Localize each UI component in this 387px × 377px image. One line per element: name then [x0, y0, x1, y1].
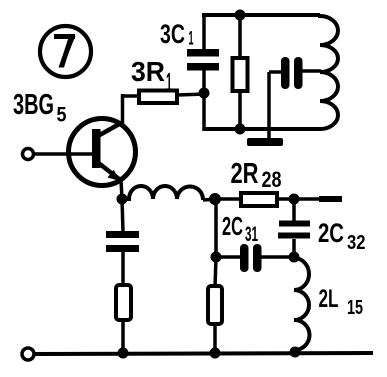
capacitor 3C1 — [187, 14, 219, 93]
input terminal — [23, 149, 34, 160]
inductor 2L15 — [294, 258, 310, 350]
wire output — [294, 197, 342, 201]
label 2L15 — [319, 285, 364, 319]
ground — [247, 72, 283, 146]
resistor 3R1 — [139, 91, 177, 104]
resistor emitter branch (vertical) — [116, 285, 131, 320]
wire emitter — [121, 180, 122, 199]
wire tank left vertical — [202, 93, 206, 131]
transistor Q1 3BG5 — [69, 119, 136, 186]
wire node C to resistor — [215, 257, 216, 287]
node rail mid — [210, 348, 221, 359]
node top rail — [235, 10, 246, 21]
resistor tank (vertical) — [233, 15, 248, 130]
inductor coupling coil (horizontal) — [127, 186, 203, 200]
node D — [289, 252, 300, 263]
wire base input — [34, 152, 94, 156]
emitter node — [117, 194, 128, 205]
node bottom rail — [235, 124, 246, 135]
svg-text:2C: 2C — [222, 211, 243, 241]
node B — [289, 194, 300, 205]
svg-text:2C: 2C — [318, 218, 344, 248]
svg-text:28: 28 — [262, 167, 282, 192]
wire resistor to rail left — [121, 320, 125, 353]
wire R28 to node B — [277, 197, 294, 201]
inductor tank coil — [320, 15, 338, 129]
node junction R1/C1 — [199, 88, 210, 99]
ground terminal — [22, 348, 34, 360]
svg-text:3R: 3R — [131, 56, 165, 87]
capacitor 2C31 — [216, 244, 295, 272]
svg-text:3C: 3C — [160, 19, 185, 49]
node A — [209, 193, 221, 205]
node C — [211, 252, 222, 263]
capacitor 2C32 — [278, 199, 310, 258]
svg-text:15: 15 — [347, 297, 363, 319]
capacitor emitter branch — [106, 199, 139, 286]
figure number 7 — [40, 26, 91, 77]
resistor emitter-network (vertical) — [208, 286, 222, 324]
wire coil to node A — [203, 199, 216, 200]
wire resistor to rail — [213, 324, 217, 353]
svg-text:1: 1 — [189, 29, 194, 50]
resistor 2R28 — [241, 193, 277, 206]
wire tank top rail — [202, 13, 320, 17]
svg-text:2L: 2L — [319, 285, 339, 313]
svg-text:3BG: 3BG — [13, 89, 54, 121]
node rail right — [290, 347, 301, 358]
label 2C32 — [318, 218, 366, 254]
svg-text:31: 31 — [245, 223, 258, 246]
trimmer capacitor — [269, 57, 321, 89]
svg-text:5: 5 — [57, 104, 67, 127]
wire R1 to node — [177, 94, 206, 95]
svg-text:2R: 2R — [231, 158, 259, 190]
label 3BG5 — [13, 89, 67, 127]
wire node A to R28 — [215, 197, 243, 201]
wire collector to R1 — [121, 94, 141, 98]
wire node A down — [214, 199, 218, 258]
svg-text:32: 32 — [347, 232, 366, 254]
label 3R1 — [131, 56, 172, 97]
label 2C31 — [222, 211, 258, 246]
node rail left — [118, 348, 129, 359]
wire collector — [121, 94, 125, 124]
wire bottom rail — [34, 353, 373, 354]
label 2R28 — [231, 158, 282, 192]
wire tank bottom rail — [203, 127, 320, 131]
label 3C1 — [160, 19, 194, 50]
